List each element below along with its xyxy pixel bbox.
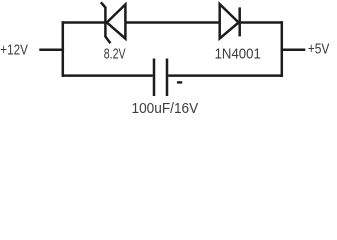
diode D2 1N4001 triangle (anode)	[220, 4, 239, 38]
capacitor C1 right plate	[166, 59, 169, 97]
wire bottom-left segment (left vertical to capacitor)	[62, 74, 153, 77]
zener diode D1 triangle (anode)	[107, 4, 126, 38]
zener diode D1 cathode top bend	[101, 2, 106, 8]
svg-text:+12V: +12V	[0, 41, 28, 58]
wire +5V output lead	[281, 49, 306, 52]
zener diode D1 cathode bottom bend	[105, 36, 110, 43]
svg-text:+5V: +5V	[308, 40, 330, 57]
wire top-left segment (left vertical to zener cathode)	[62, 21, 105, 24]
wire right vertical	[281, 21, 284, 77]
capacitor C1 negative polarity mark	[177, 81, 182, 83]
svg-text:8.2V: 8.2V	[104, 45, 126, 62]
wire bottom-right segment (capacitor to right vertical)	[168, 74, 283, 77]
zener diode D1 cathode bar	[104, 7, 107, 36]
wire top-middle segment (zener anode to 1N4001 anode)	[125, 21, 219, 24]
diode D2 1N4001 cathode bar	[238, 7, 241, 36]
wire +12V input lead	[39, 49, 64, 52]
capacitor C1 left plate	[153, 59, 156, 97]
svg-text:100uF/16V: 100uF/16V	[132, 101, 199, 115]
svg-text:1N4001: 1N4001	[215, 45, 261, 62]
wire left vertical	[62, 21, 65, 77]
wire top-right segment (1N4001 cathode to right vertical)	[241, 21, 283, 24]
